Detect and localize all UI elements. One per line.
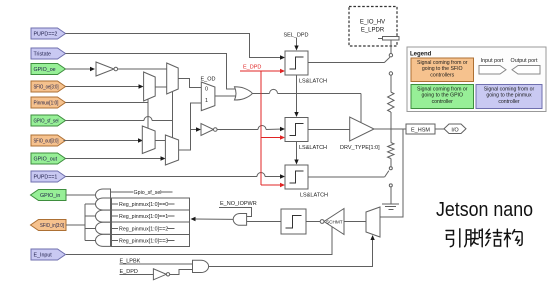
svg-text:Reg_pinmux[1:0]==3: Reg_pinmux[1:0]==3 — [119, 238, 168, 244]
svg-text:Signal coming from or: Signal coming from or — [417, 87, 468, 93]
svg-text:LS&LATCH: LS&LATCH — [300, 193, 328, 199]
svg-text:E_OD: E_OD — [201, 77, 216, 83]
svg-text:Tristate: Tristate — [34, 52, 52, 58]
svg-text:1: 1 — [205, 98, 208, 104]
svg-text:GPIO_in: GPIO_in — [40, 193, 60, 199]
svg-text:Reg_pinmux[1:0]==2: Reg_pinmux[1:0]==2 — [119, 226, 168, 232]
svg-text:LS&LATCH: LS&LATCH — [299, 79, 327, 85]
svg-text:E_LPDR: E_LPDR — [361, 28, 385, 34]
svg-text:I/O: I/O — [451, 127, 459, 133]
svg-text:SFIO_oe[3:0]: SFIO_oe[3:0] — [34, 85, 59, 91]
svg-text:E_HSM: E_HSM — [411, 128, 430, 134]
svg-text:Signal coming from or: Signal coming from or — [417, 60, 468, 66]
svg-text:SFIO_in[3:0]: SFIO_in[3:0] — [40, 223, 64, 229]
svg-text:Signal coming from or: Signal coming from or — [484, 87, 535, 93]
svg-text:Reg_pinmux[1:0]==1: Reg_pinmux[1:0]==1 — [119, 214, 168, 220]
svg-text:SFIO_out[3:0]: SFIO_out[3:0] — [34, 139, 59, 145]
svg-text:GPIO_oe: GPIO_oe — [34, 67, 56, 73]
svg-text:controller: controller — [432, 99, 454, 105]
svg-text:GPIO_sf_sel: GPIO_sf_sel — [34, 119, 59, 125]
svg-text:Legend: Legend — [410, 52, 432, 58]
svg-text:LS&LATCH: LS&LATCH — [299, 145, 327, 151]
svg-text:E_Input: E_Input — [34, 253, 53, 259]
svg-text:E_DPD: E_DPD — [243, 65, 261, 71]
svg-text:going to the pinmux: going to the pinmux — [486, 93, 532, 99]
svg-text:Output port: Output port — [511, 58, 538, 64]
svg-text:E_NO_IOPWR: E_NO_IOPWR — [220, 201, 257, 207]
svg-text:DRV_TYPE[1:0]: DRV_TYPE[1:0] — [340, 145, 380, 151]
svg-text:Pinmux[1:0]: Pinmux[1:0] — [34, 101, 59, 107]
svg-text:SCHMT: SCHMT — [326, 219, 343, 224]
svg-text:E_IO_HV: E_IO_HV — [360, 20, 385, 26]
svg-text:Jetson nano: Jetson nano — [436, 199, 533, 221]
svg-text:going to the GPIO: going to the GPIO — [421, 93, 463, 99]
svg-text:PUPD==2: PUPD==2 — [34, 32, 58, 38]
svg-text:controller: controller — [498, 99, 520, 105]
svg-text:Gpio_sf_sel: Gpio_sf_sel — [134, 190, 162, 196]
svg-text:Input port: Input port — [481, 58, 504, 64]
svg-text:going to the SFIO: going to the SFIO — [422, 66, 463, 72]
svg-text:controllers: controllers — [430, 72, 454, 78]
svg-text:0: 0 — [205, 87, 208, 93]
svg-text:SEL_DPD: SEL_DPD — [283, 33, 308, 39]
svg-text:PUPD==1: PUPD==1 — [34, 175, 58, 181]
svg-text:GPIO_out: GPIO_out — [34, 157, 58, 163]
svg-text:Reg_pinmux[1:0]==0: Reg_pinmux[1:0]==0 — [119, 202, 168, 208]
